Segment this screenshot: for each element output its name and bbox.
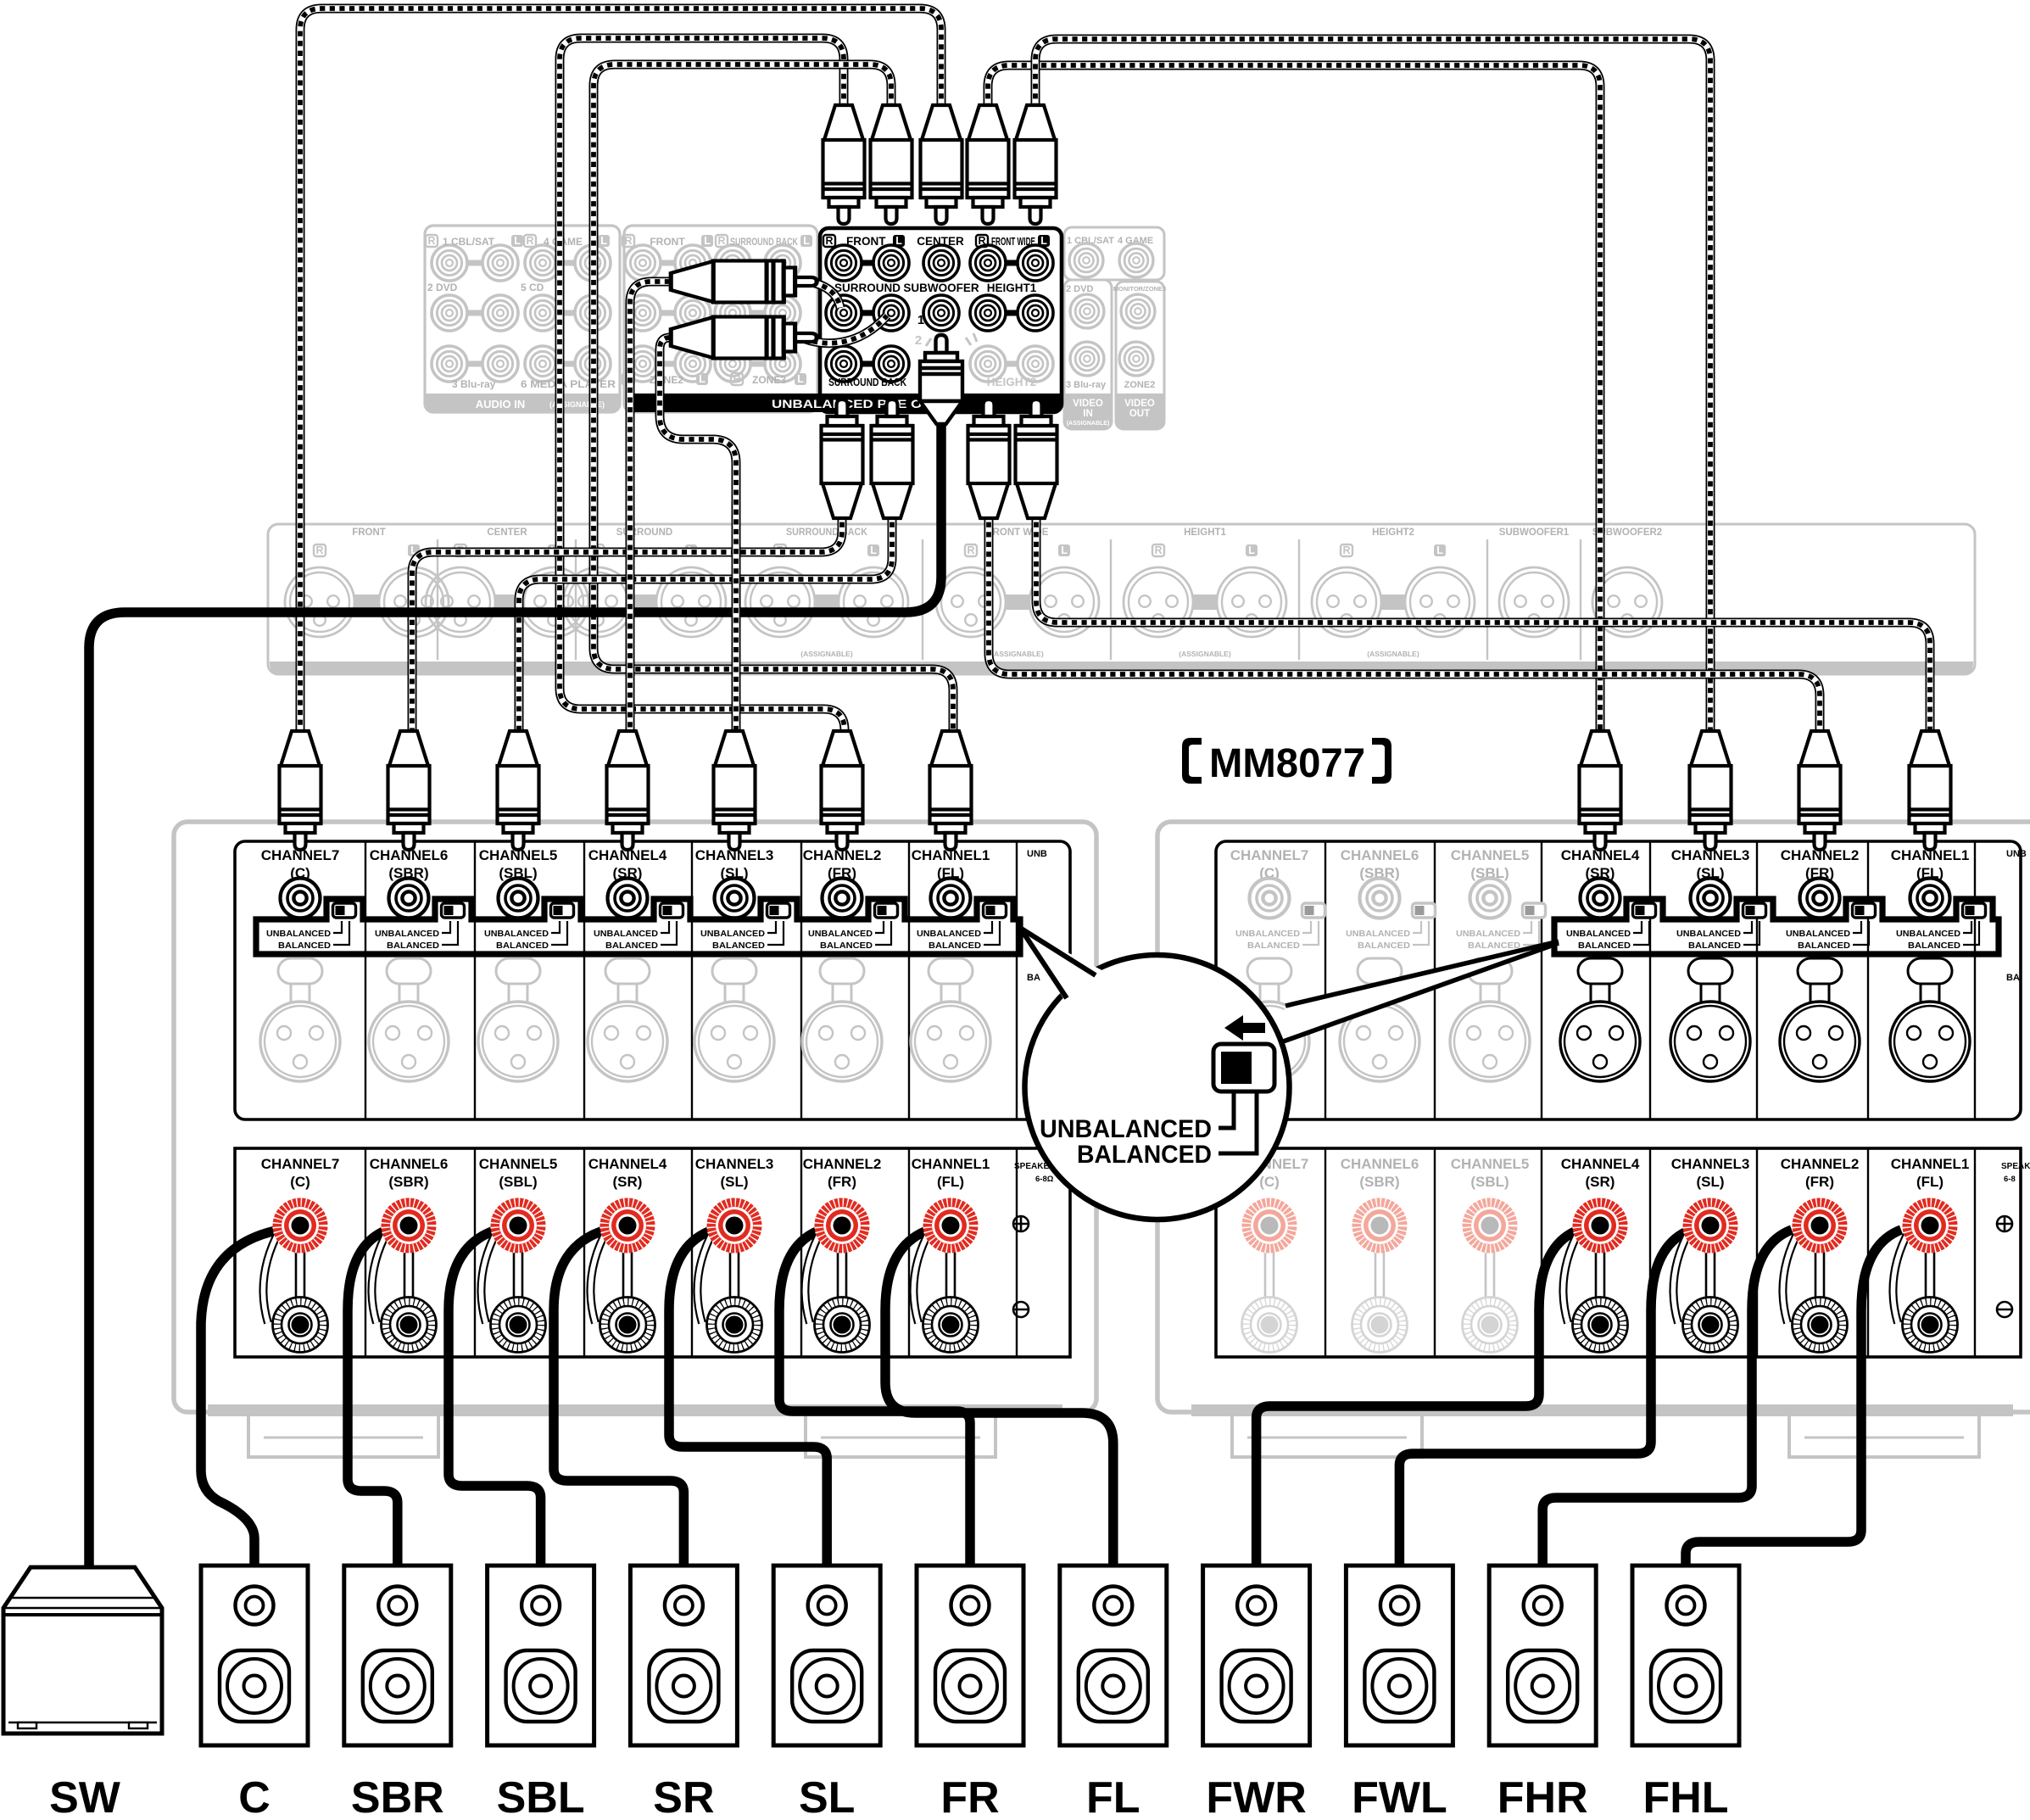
right amp CHANNEL5 (SBL) input (RCA jack + UNBALANCED/BALANCED switch) [1451,847,1546,951]
left amp CHANNEL1 (FL) input (RCA jack + UNBALANCED/BALANCED switch) [912,847,1007,951]
svg-text:L: L [1248,544,1255,556]
svg-text:(SR): (SR) [1586,1174,1615,1190]
svg-text:2 DVD: 2 DVD [427,282,458,293]
svg-text:CHANNEL5: CHANNEL5 [479,1156,558,1172]
svg-text:HEIGHT2: HEIGHT2 [987,376,1037,388]
svg-text:ZONE2: ZONE2 [650,374,683,386]
receiver video-in/out panels (grayed) [1064,227,1166,429]
speaker C [201,1566,308,1745]
svg-text:SURROUND: SURROUND [616,528,672,538]
svg-text:R: R [315,544,323,556]
speaker SBL [488,1566,594,1745]
right amp CHANNEL7 (C) input (RCA jack + UNBALANCED/BALANCED switch) [1230,847,1325,951]
svg-text:BALANCED: BALANCED [278,941,331,951]
RCA plug into left amp CHANNEL3 [714,731,756,850]
right amp CH1 binding posts [1903,1198,1958,1253]
svg-text:VIDEO: VIDEO [1124,399,1155,409]
svg-text:SURROUND BACK: SURROUND BACK [828,376,906,388]
cable: FRONT R pre-out to left amp CHANNEL2 (FR) [560,38,845,735]
svg-text:CHANNEL1: CHANNEL1 [1891,1156,1970,1172]
svg-text:(C): (C) [290,1174,310,1190]
RCA plug into pre-out FRONT WIDE L [1015,105,1057,224]
svg-text:UNBALANCED: UNBALANCED [594,929,658,939]
svg-text:SUBWOOFER: SUBWOOFER [903,282,979,294]
svg-text:5 CD: 5 CD [521,282,544,293]
cable: FRONT WIDE R pre-out to right amp CHANNEL4 [988,65,1600,735]
magnifier circle (switch detail) [1020,928,1290,1220]
svg-text:L: L [699,373,705,385]
svg-text:1 CBL/SAT: 1 CBL/SAT [443,236,495,248]
RCA plug into pre-out HEIGHT1 L [1016,399,1057,518]
left amp CHANNEL4 (SR) input (RCA jack + UNBALANCED/BALANCED switch) [588,847,683,951]
speaker SR [630,1566,737,1745]
7.1ch input jack pair FRONT [661,260,675,266]
svg-text:BALANCED: BALANCED [1908,941,1960,951]
RCA plug into right amp CHANNEL1 [1910,731,1951,850]
svg-text:R: R [1342,544,1350,556]
svg-text:R: R [733,373,740,385]
speaker FWL [1346,1566,1453,1745]
svg-text:FWL: FWL [1352,1773,1447,1820]
MM8077 label [1182,738,1391,786]
left amp CH5 binding posts [491,1198,546,1253]
svg-text:(ASSIGNABLE): (ASSIGNABLE) [991,650,1044,658]
right amp CHANNEL1 (FL) input (RCA jack + UNBALANCED/BALANCED switch) [1891,847,1986,951]
pre-out jack SURROUND L [873,295,909,331]
7.1ch input jack pair row2-b [750,310,765,316]
svg-text:R: R [967,544,974,556]
svg-text:FHL: FHL [1642,1773,1728,1820]
svg-text:(FL): (FL) [1916,1174,1944,1190]
pre-out panel labels [823,235,835,247]
svg-text:UNBALANCED: UNBALANCED [375,929,439,939]
svg-text:SR: SR [653,1773,714,1820]
cable: FRONT WIDE L pre-out to right amp CHANNEL3 [1035,39,1710,735]
RCA plug into right amp CHANNEL3 [1690,731,1732,850]
svg-text:(SR): (SR) [613,1174,643,1190]
pre-out jack HEIGHT2 R (unused) [1006,361,1018,367]
svg-text:BALANCED: BALANCED [1468,941,1520,951]
svg-text:BALANCED: BALANCED [387,941,439,951]
svg-text:SUBWOOFER1: SUBWOOFER1 [1499,528,1570,538]
svg-text:HEIGHT2: HEIGHT2 [1372,528,1414,538]
svg-text:CHANNEL7: CHANNEL7 [1230,847,1309,863]
svg-text:L: L [803,235,810,247]
RCA plug into left amp CHANNEL5 [498,731,539,850]
svg-text:UNBALANCED: UNBALANCED [484,929,549,939]
speaker wire: left amp CH2 to (FR) speaker [779,1230,970,1566]
svg-text:R: R [624,235,632,247]
svg-text:AUDIO IN: AUDIO IN [476,398,526,410]
7.1ch input jack pair row2-a [661,310,675,316]
left amp CHANNEL2 (FR) input (RCA jack + UNBALANCED/BALANCED switch) [803,847,898,951]
svg-text:(ASSIGNABLE): (ASSIGNABLE) [1067,421,1110,427]
video CBL/SAT jack [1069,243,1103,277]
left amp CHANNEL5 (SBL) input (RCA jack + UNBALANCED/BALANCED switch) [479,847,574,951]
svg-text:UNBALANCED PRE OUT: UNBALANCED PRE OUT [772,398,942,410]
svg-text:R: R [1154,544,1162,556]
cable: SURROUND L plug tip to jack [803,315,887,343]
subwoofer SW [3,1567,162,1733]
svg-text:ZONE3: ZONE3 [752,374,786,386]
svg-text:SBR: SBR [351,1773,444,1820]
svg-text:6-8Ω: 6-8Ω [1035,1175,1054,1184]
svg-text:(C): (C) [1259,1174,1280,1190]
UNBALANCED PRE OUT box on receiver [627,228,1062,412]
pre-out jack CENTER [923,245,959,281]
RCA plug into pre-out SURROUND BACK R [822,399,863,518]
video MONITOR/ZONE3 jack [1121,294,1155,328]
cable: HEIGHT1 R pre-out to right amp CHANNEL2 [989,512,1820,735]
right amp CHANNEL3 (SL) input (RCA jack + UNBALANCED/BALANCED switch) [1671,847,1766,951]
svg-text:UNBALANCED: UNBALANCED [1676,929,1741,939]
speaker wire: right amp CH4 to FWR [1257,1230,1579,1566]
svg-text:(SL): (SL) [720,1174,748,1190]
svg-text:UNBALANCED: UNBALANCED [1566,929,1631,939]
RCA plug into pre-out HEIGHT1 R [968,399,1010,518]
left amp CHANNEL6 (SBR) input (RCA jack + UNBALANCED/BALANCED switch) [370,847,465,951]
RCA plug into pre-out SURROUND BACK L [872,399,913,518]
svg-text:3 Blu-ray: 3 Blu-ray [452,378,496,390]
svg-text:CHANNEL1: CHANNEL1 [912,1156,990,1172]
audio-in panel labels [426,235,438,247]
video GAME jack [1119,243,1153,277]
audio-in jack pair GAME [560,260,575,266]
svg-text:FRONT: FRONT [650,236,685,248]
SURROUND L horizontal plug [671,317,817,359]
svg-text:BALANCED: BALANCED [496,941,549,951]
svg-text:UNBALANCED: UNBALANCED [1040,1115,1212,1143]
svg-text:UNB: UNB [2006,849,2027,859]
cable: SURROUND R plug tip to jack [803,281,840,308]
7.1ch input jack pair ZONE3 [750,361,765,367]
magnified UNBALANCED/BALANCED switch [1213,1044,1274,1091]
right amp CHANNEL2 (FR) input (RCA jack + UNBALANCED/BALANCED switch) [1781,847,1876,951]
svg-text:R: R [717,235,725,247]
cable: FRONT L pre-out to left amp CHANNEL1 (FL) [594,64,953,735]
right amp CHANNEL4 (SR) input (RCA jack + UNBALANCED/BALANCED switch) [1561,847,1656,951]
speaker SL [773,1566,880,1745]
svg-text:BA: BA [1027,973,1040,983]
svg-text:HEIGHT1: HEIGHT1 [1184,528,1226,538]
svg-text:R: R [825,235,833,247]
audio-in jack pair CD [560,310,575,316]
svg-text:(SBR): (SBR) [388,1174,428,1190]
svg-text:2: 2 [915,333,922,348]
RCA plug into left amp CHANNEL6 [388,731,430,850]
left amp CH3 binding posts [707,1198,762,1253]
svg-text:MM8077: MM8077 [1209,741,1365,786]
speaker wire: right amp CH2 to FHR [1542,1230,1792,1566]
svg-text:BALANCED: BALANCED [1358,941,1410,951]
video DVD jack [1070,294,1104,328]
speaker wire: right amp CH1 to FHL [1686,1230,1901,1566]
svg-text:BA: BA [2006,973,2020,983]
svg-text:CENTER: CENTER [917,235,964,248]
svg-text:R: R [978,235,985,247]
RCA plug into right amp CHANNEL2 [1799,731,1841,850]
right amp CH4 binding posts [1573,1198,1628,1253]
svg-text:BALANCED: BALANCED [605,941,658,951]
audio-in jack pair Blu-ray [467,361,482,367]
svg-text:6 MEDIA PLAYER: 6 MEDIA PLAYER [521,378,616,390]
SURROUND R horizontal plug [671,261,817,303]
right amp polarity marks [1997,1216,2012,1317]
svg-text:UNBALANCED: UNBALANCED [917,929,981,939]
svg-text:BALANCED: BALANCED [929,941,981,951]
pre-out jack SUBWOOFER 1 [923,295,959,331]
left amp CHANNEL3 (SL) input (RCA jack + UNBALANCED/BALANCED switch) [695,847,790,951]
speaker wire: left amp CH5 to (SBL) speaker [449,1230,541,1566]
AV receiver audio-in panel (AUDIO IN, grayed) [425,226,620,412]
svg-text:(ASSIGNABLE): (ASSIGNABLE) [1367,650,1419,658]
svg-text:CHANNEL3: CHANNEL3 [695,1156,774,1172]
svg-text:R: R [427,235,435,247]
speaker FL [1060,1566,1167,1745]
svg-text:3 Blu-ray: 3 Blu-ray [1066,380,1107,390]
svg-text:FRONT WIDE: FRONT WIDE [991,235,1035,248]
AV receiver 7.1ch input panel (grayed) [622,226,817,412]
RCA plug into left amp CHANNEL2 [822,731,863,850]
svg-text:R: R [526,235,533,247]
speaker SBR [344,1566,451,1745]
svg-text:SURROUND: SURROUND [834,282,901,294]
svg-text:MONITOR/ZONE3: MONITOR/ZONE3 [1113,285,1166,293]
svg-text:(ASSIGNABLE): (ASSIGNABLE) [1179,650,1231,658]
svg-text:1: 1 [917,313,924,327]
pre-out jack HEIGHT1 L [1018,295,1053,331]
RCA plug into pre-out FRONT WIDE R [968,105,1009,224]
svg-text:CENTER: CENTER [487,528,527,538]
svg-text:UNBALANCED: UNBALANCED [700,929,765,939]
RCA plug into pre-out CENTER [921,105,962,224]
svg-text:UNBALANCED: UNBALANCED [1456,929,1520,939]
svg-text:VIDEO: VIDEO [1073,399,1103,409]
RCA plug into right amp CHANNEL4 [1580,731,1621,850]
left amp CH4 binding posts [600,1198,655,1253]
svg-text:CHANNEL6: CHANNEL6 [370,1156,449,1172]
speaker FR [917,1566,1023,1745]
cable: SURROUND BACK R pre-out to left amp CHANNEL6 (SBR) [412,512,842,735]
speaker FWR [1203,1566,1310,1745]
svg-text:HEIGHT1: HEIGHT1 [987,282,1037,294]
speaker wire: left amp CH1 to FL [885,1230,1113,1566]
left amp CH2 binding posts [815,1198,870,1253]
svg-text:UNBALANCED: UNBALANCED [1896,929,1960,939]
svg-text:UNB: UNB [1027,849,1047,859]
svg-text:IN: IN [1083,409,1093,419]
right amp CH6 binding posts [1352,1198,1408,1253]
pre-out jack SURROUND BACK R [862,361,873,367]
RCA plug into left amp CHANNEL4 [607,731,649,850]
cable: CENTER pre-out to left amp CHANNEL7 (C) [300,8,941,735]
svg-text:UNBALANCED: UNBALANCED [808,929,873,939]
audio-in jack pair DVD [467,310,482,316]
pre-out jack FRONT L [873,245,909,281]
cable: HEIGHT1 L pre-out to right amp CHANNEL1 [1036,512,1930,735]
audio-in jack pair CBL/SAT [467,260,482,266]
svg-text:CHANNEL2: CHANNEL2 [1781,1156,1860,1172]
magnifier callout wedge lines to right amp CH4 switch [1274,941,1559,1045]
left amp CH1 binding posts [923,1198,979,1253]
svg-text:L: L [1436,544,1443,556]
arrow pointing left [1224,1015,1265,1041]
svg-text:L: L [1040,235,1047,247]
svg-text:BALANCED: BALANCED [820,941,873,951]
jack pair link [862,260,873,266]
svg-text:CHANNEL3: CHANNEL3 [1671,1156,1750,1172]
svg-text:(ASSIGNABLE): (ASSIGNABLE) [800,650,853,658]
svg-text:2 DVD: 2 DVD [1066,284,1093,294]
speaker FHL [1632,1566,1739,1745]
svg-text:L: L [1061,544,1068,556]
svg-text:UNBALANCED: UNBALANCED [1786,929,1850,939]
speaker FHR [1489,1566,1596,1745]
right amp CHANNEL6 (SBR) input (RCA jack + UNBALANCED/BALANCED switch) [1341,847,1436,951]
svg-text:CHANNEL6: CHANNEL6 [1341,1156,1419,1172]
pre-out jack SURROUND BACK L [873,346,909,382]
RCA plug into pre-out FRONT R [823,105,865,224]
speaker wire: right amp CH3 to FWL [1399,1230,1691,1566]
svg-text:SBL: SBL [497,1773,585,1820]
white return wires at binding posts [263,1230,280,1323]
RCA plug into left amp CHANNEL1 [930,731,972,850]
svg-text:UNBALANCED: UNBALANCED [266,929,331,939]
7.1ch input jack pair ZONE2 [661,361,675,367]
svg-text:FWR: FWR [1206,1773,1306,1820]
cable: SURROUND L pre-out to left amp CHANNEL3 (SL) [660,338,736,735]
svg-text:L: L [895,235,902,247]
left amp CHANNEL7 (C) input (RCA jack + UNBALANCED/BALANCED switch) [261,847,356,951]
svg-text:SL: SL [799,1773,855,1820]
speaker wire: left amp CH7 to C [201,1230,280,1566]
svg-text:L: L [704,235,711,247]
svg-text:CHANNEL5: CHANNEL5 [1451,847,1530,863]
svg-text:CHANNEL4: CHANNEL4 [1561,1156,1640,1172]
svg-text:SPEAK: SPEAK [2001,1162,2030,1171]
svg-text:(SBL): (SBL) [1470,1174,1509,1190]
svg-text:CHANNEL7: CHANNEL7 [261,1156,340,1172]
svg-text:SURROUND BACK: SURROUND BACK [786,528,868,538]
pre-out jack HEIGHT2 L (unused) [1018,346,1053,382]
svg-text:L: L [797,373,804,385]
pre-out jack SURROUND R [862,310,873,316]
video ZONE2 jack [1119,342,1153,376]
svg-text:OUT: OUT [1129,409,1150,419]
svg-text:BALANCED: BALANCED [712,941,765,951]
video Blu-ray jack [1070,342,1104,376]
svg-text:C: C [238,1773,270,1820]
left amp polarity marks [1013,1216,1029,1317]
svg-text:(SL): (SL) [1696,1174,1724,1190]
svg-text:SURROUND BACK: SURROUND BACK [730,236,798,248]
svg-text:UNBALANCED: UNBALANCED [1346,929,1410,939]
svg-text:FRONT: FRONT [352,528,386,538]
cable: SURROUND BACK L pre-out to left amp CHANNEL5 (SBL) [519,512,892,735]
MM8077 left amp chassis outline [174,822,1096,1457]
svg-text:CHANNEL6: CHANNEL6 [1341,847,1419,863]
7.1ch input jack pair SURROUND BACK [750,260,765,266]
svg-text:L: L [870,544,877,556]
svg-text:(SBL): (SBL) [499,1174,537,1190]
svg-text:ZONE2: ZONE2 [1124,380,1156,390]
right amp CH2 binding posts [1793,1198,1848,1253]
svg-text:(FL): (FL) [937,1174,964,1190]
svg-text:L: L [600,235,607,247]
pre-out jack HEIGHT1 R [1006,310,1018,316]
speaker wire: left amp CH4 to (SR) speaker [554,1230,683,1566]
audio-in jack pair MEDIA PLAYER [560,361,575,367]
right amp CH7 binding posts [1242,1198,1297,1253]
balanced XLR pre-out panel (grayed) [268,524,1975,674]
svg-text:BALANCED: BALANCED [1688,941,1741,951]
pre-out jack FRONT WIDE L [1018,245,1053,281]
svg-text:FHR: FHR [1497,1773,1588,1820]
svg-text:SW: SW [49,1773,121,1820]
left amp CH7 binding posts [273,1198,328,1253]
svg-text:FRONT: FRONT [846,235,886,248]
svg-text:FL: FL [1086,1773,1140,1820]
svg-text:(SBR): (SBR) [1359,1174,1399,1190]
left amp XLR balanced inputs (unused, gray) [260,958,340,1081]
svg-text:L: L [514,235,521,247]
MM8077 right amp chassis outline [1157,822,2030,1457]
RCA plug into left amp CHANNEL7 [280,731,321,850]
svg-text:CHANNEL5: CHANNEL5 [1451,1156,1530,1172]
cable: SUBWOOFER pre-out to SW subwoofer (solid) [89,424,941,1566]
speaker wire: left amp CH6 to (SBR) speaker [348,1230,398,1566]
svg-text:(FR): (FR) [1805,1174,1834,1190]
svg-text:FR: FR [940,1773,999,1820]
left amp CH6 binding posts [382,1198,437,1253]
svg-text:CHANNEL2: CHANNEL2 [803,1156,882,1172]
svg-text:BALANCED: BALANCED [1247,941,1300,951]
right amp CH3 binding posts [1683,1198,1738,1253]
speaker wire: left amp CH3 to (SL) speaker [669,1230,827,1566]
pre-out jack FRONT WIDE R [1006,260,1018,266]
svg-text:BALANCED: BALANCED [1578,941,1631,951]
SUBWOOFER RCA plug (inserted) [920,335,962,424]
cable: SURROUND R pre-out to left amp CHANNEL4 (SR) [630,282,670,735]
svg-text:(FR): (FR) [828,1174,856,1190]
svg-text:CHANNEL4: CHANNEL4 [588,1156,667,1172]
svg-text:BALANCED: BALANCED [1798,941,1850,951]
svg-text:UNBALANCED: UNBALANCED [1235,929,1300,939]
svg-text:BALANCED: BALANCED [1077,1141,1212,1169]
svg-text:6-8: 6-8 [2004,1175,2016,1184]
RCA plug into pre-out FRONT L [871,105,912,224]
right amp XLR balanced inputs (CH7-CH5 gray, CH4-CH1 black) [1230,958,1309,1081]
right amp CH5 binding posts [1463,1198,1518,1253]
